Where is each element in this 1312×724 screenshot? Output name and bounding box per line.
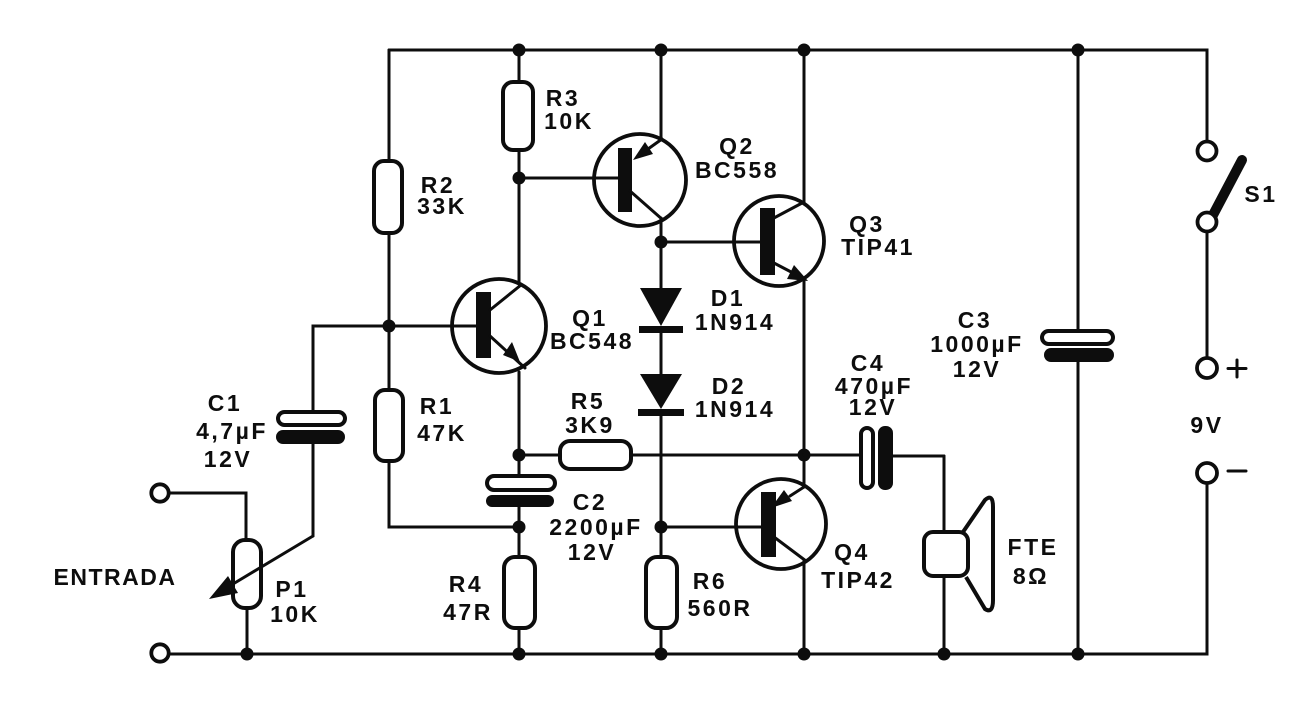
resistor R3: [503, 82, 594, 150]
svg-text:10K: 10K: [270, 601, 320, 627]
svg-text:S1: S1: [1244, 181, 1277, 207]
resistor R1: [375, 390, 467, 461]
switch S1: [1198, 142, 1278, 232]
resistor R5: [519, 388, 631, 469]
wire D2 down to Q4 base node: [660, 416, 663, 527]
diode D2 1N914: [638, 373, 775, 422]
svg-text:560R: 560R: [688, 595, 753, 621]
node Q1 emitter / R5 / C2: [513, 449, 526, 462]
input terminal top: [151, 484, 168, 501]
svg-text:1N914: 1N914: [695, 309, 775, 335]
node R4 bottom rail: [513, 648, 526, 661]
resistor R4: [443, 527, 535, 654]
svg-text:47R: 47R: [443, 599, 493, 625]
svg-text:9V: 9V: [1190, 412, 1223, 438]
svg-text:2200µF: 2200µF: [549, 514, 642, 540]
wire battery - to bottom rail: [169, 483, 1207, 654]
svg-text:12V: 12V: [204, 446, 252, 472]
wire D1 to D2: [660, 333, 663, 374]
wire R3 column x=519 top: [518, 50, 521, 178]
svg-text:1N914: 1N914: [695, 396, 775, 422]
svg-text:P1: P1: [275, 576, 308, 602]
svg-text:3K9: 3K9: [565, 412, 615, 438]
svg-text:D1: D1: [711, 285, 745, 311]
node C3 bottom rail: [1072, 648, 1085, 661]
capacitor C1 4,7uF: [196, 390, 345, 536]
svg-text:R6: R6: [693, 568, 727, 594]
svg-text:33K: 33K: [417, 193, 467, 219]
svg-text:Q4: Q4: [834, 539, 870, 565]
capacitor C3 1000uF: [930, 44, 1114, 655]
battery - terminal: [1197, 463, 1246, 483]
input terminal bottom: [151, 644, 168, 661]
svg-text:R5: R5: [571, 388, 605, 414]
wire Q1 emitter down: [518, 372, 521, 455]
resistor R2: [374, 161, 467, 233]
capacitor C4 470uF: [804, 350, 944, 490]
svg-text:12V: 12V: [849, 394, 897, 420]
node output (Q3 emitter / Q4 emitter / C4): [798, 449, 811, 462]
svg-text:12V: 12V: [568, 539, 616, 565]
node Q3 collector on rail: [798, 44, 811, 57]
transistor Q2 BC558: [519, 50, 779, 242]
svg-text:Q2: Q2: [719, 133, 755, 159]
svg-text:1000µF: 1000µF: [930, 331, 1023, 357]
resistor R6: [646, 527, 752, 654]
node R3 top on rail: [513, 44, 526, 57]
svg-text:BC558: BC558: [695, 157, 779, 183]
wire Q1 base from C1 elbow: [313, 326, 453, 413]
node junction Q1 base / R2-R1: [383, 320, 396, 333]
node P1 bottom on rail: [241, 648, 254, 661]
svg-text:8Ω: 8Ω: [1013, 563, 1049, 589]
svg-text:ENTRADA: ENTRADA: [54, 564, 177, 590]
potentiometer P1: [209, 536, 320, 654]
diode D1 1N914: [639, 242, 775, 335]
svg-text:C3: C3: [958, 307, 992, 333]
node Q2 collector / Q3 base / D1: [655, 236, 668, 249]
svg-text:FTE: FTE: [1008, 534, 1059, 560]
node D2 / R6 / Q4 base: [655, 521, 668, 534]
svg-text:47K: 47K: [417, 420, 467, 446]
svg-text:C1: C1: [208, 390, 242, 416]
svg-text:C2: C2: [573, 489, 607, 515]
svg-text:BC548: BC548: [550, 328, 634, 354]
wire left branch x=389 (R2/R1 column): [389, 50, 519, 527]
svg-text:12V: 12V: [953, 356, 1001, 382]
svg-text:TIP42: TIP42: [821, 567, 895, 593]
svg-text:TIP41: TIP41: [841, 234, 915, 260]
capacitor C2 2200uF: [486, 455, 643, 565]
svg-text:R4: R4: [449, 571, 483, 597]
speaker FTE 8ohm: [924, 456, 1058, 654]
node R3 bottom / Q2 base / Q1 collector: [513, 172, 526, 185]
node Q2 emitter on rail: [655, 44, 668, 57]
wire S1 to battery +: [1206, 232, 1209, 358]
wire top rail V+: [389, 50, 1207, 141]
transistor Q3 TIP41: [661, 50, 915, 455]
svg-text:4,7µF: 4,7µF: [196, 418, 268, 444]
battery + terminal: [1197, 358, 1246, 378]
node R6 bottom rail: [655, 648, 668, 661]
node C2 bottom / R4 / R1: [513, 521, 526, 534]
wire R5 to output node: [631, 454, 804, 457]
svg-text:10K: 10K: [544, 108, 594, 134]
svg-text:R1: R1: [420, 393, 454, 419]
node speaker bottom rail: [938, 648, 951, 661]
transistor Q1 BC548: [389, 178, 634, 373]
wire input top to P1: [169, 493, 246, 540]
transistor Q4 TIP42: [661, 455, 895, 654]
node Q4 collector bottom rail: [798, 648, 811, 661]
